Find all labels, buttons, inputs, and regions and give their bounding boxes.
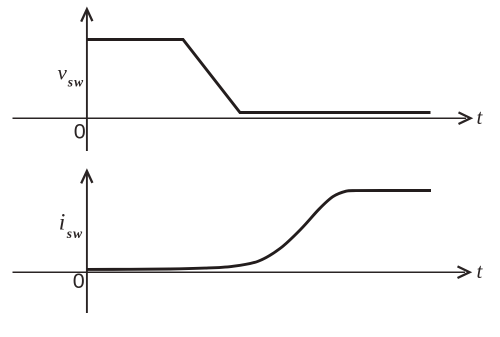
bottom plot y-axis [86,174,88,313]
svg-text:sw: sw [67,75,84,90]
svg-text:0: 0 [73,269,85,293]
top plot y-axis arrowhead [81,9,92,21]
bottom plot y-axis arrowhead [81,171,92,183]
waveform i_sw S-curve [87,191,431,270]
top plot y-axis [86,12,88,151]
bottom plot x-axis arrowhead [458,266,470,278]
svg-text:sw: sw [66,226,83,241]
svg-text:0: 0 [74,120,86,144]
svg-text:i: i [59,210,66,236]
waveform v_sw trapezoid [87,40,431,113]
top plot x-axis arrowhead [459,112,471,124]
bottom plot x-axis [13,271,466,273]
svg-text:v: v [58,61,68,85]
svg-text:t: t [477,105,484,129]
svg-text:t: t [477,259,484,283]
top plot x-axis [13,117,467,119]
